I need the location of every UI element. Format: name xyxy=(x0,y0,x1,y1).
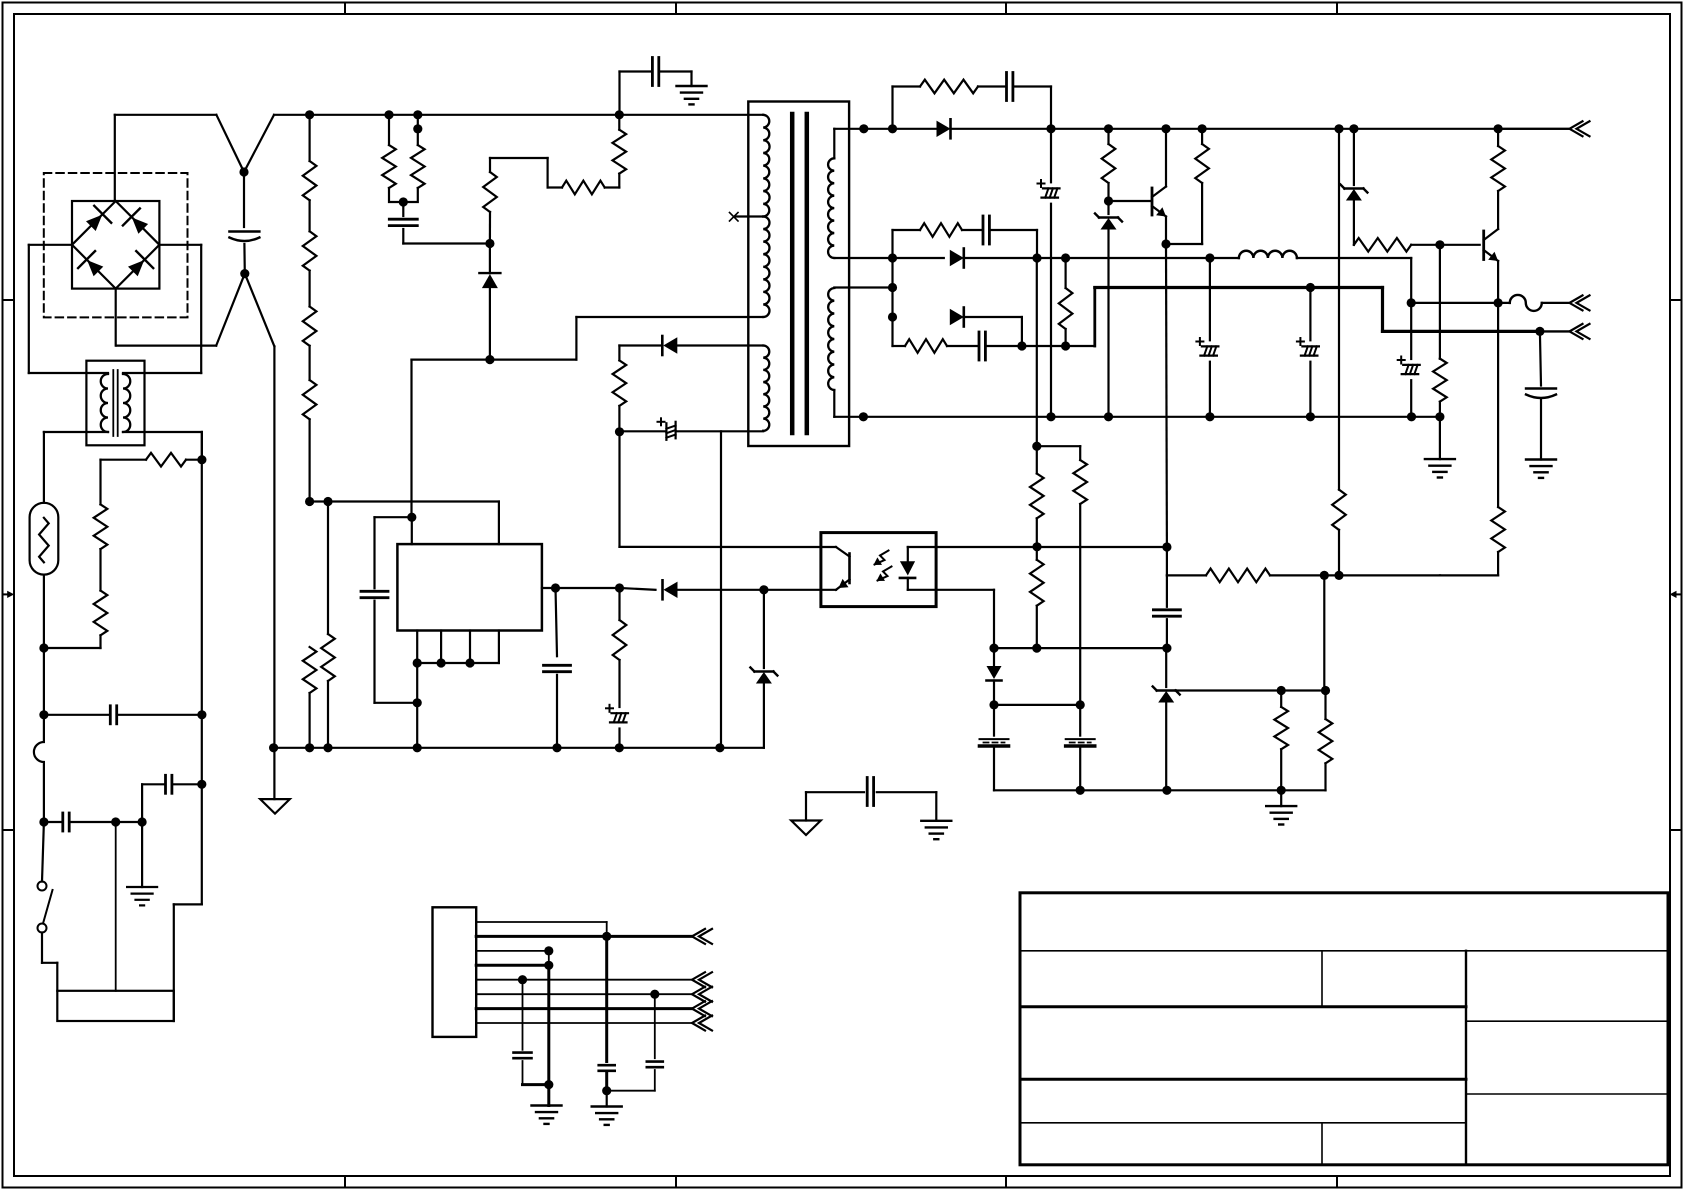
wire Q1 base xyxy=(1109,200,1153,202)
wire IC right pin xyxy=(542,587,556,589)
choke L1 left winding xyxy=(101,374,108,432)
switch SW1 xyxy=(38,822,53,963)
node opto emitter junction xyxy=(759,585,768,594)
node divider tap xyxy=(1104,124,1113,133)
wire secondary rail 2 xyxy=(834,257,944,259)
node R4 bottom xyxy=(305,497,314,506)
transformer T1 primary tap xyxy=(736,215,763,217)
wire row 303 out xyxy=(1542,302,1570,304)
node rail R4 tap xyxy=(305,110,314,119)
node fb mid a xyxy=(1334,571,1343,580)
capacitor C15 electrolytic xyxy=(1297,288,1319,417)
node IC ground mid xyxy=(413,698,422,707)
node C17 rail xyxy=(1162,644,1171,653)
wire choke bottom left lead xyxy=(44,432,108,503)
ground G2 xyxy=(677,86,707,104)
connector chevron p7 xyxy=(692,1001,712,1016)
resistor R3 xyxy=(44,549,107,648)
resistor R5 xyxy=(382,115,403,202)
resistor R30 xyxy=(1433,245,1447,417)
diode D7 xyxy=(987,648,1002,705)
wire top rail to transformer xyxy=(274,114,763,116)
node R12 rail xyxy=(305,743,314,752)
node inductor tap xyxy=(1205,253,1214,262)
node zener ZD2 tap xyxy=(1349,124,1358,133)
resistor R26 xyxy=(1319,691,1333,791)
connector J1 pin 1 wire xyxy=(476,922,607,936)
wire crossover X bottom xyxy=(116,274,274,347)
node C15 rail xyxy=(1306,412,1315,421)
node D1 cathode xyxy=(1046,124,1055,133)
resistor R28 xyxy=(1030,547,1044,648)
title block column divider upper xyxy=(1321,951,1323,1007)
transformer T1 secondary winding B xyxy=(828,288,834,390)
transformer T1 primary winding 3 xyxy=(763,346,769,431)
earth ground G1 xyxy=(127,822,157,905)
node opto collector join xyxy=(1162,542,1171,551)
node R6 tap xyxy=(413,110,422,133)
wire opto cathode out xyxy=(936,590,994,648)
optocoupler U2 box xyxy=(821,533,936,607)
resistor R22 sense xyxy=(1440,303,1505,576)
choke L1 core lines xyxy=(113,370,117,436)
zener ZD4 xyxy=(750,590,777,748)
wire IC top feed xyxy=(310,502,499,545)
wire 12V rail step xyxy=(1383,288,1540,332)
wire IC pin top xyxy=(411,517,413,544)
optocoupler U2 LED xyxy=(900,547,936,590)
wire zener row xyxy=(1175,689,1325,691)
node row 303 left xyxy=(1407,298,1416,307)
transistor Q2 xyxy=(1484,229,1498,261)
node C16 rail xyxy=(1407,412,1416,421)
node gate drive xyxy=(485,239,494,248)
node 12V cap tap xyxy=(1306,283,1315,292)
node J1 pin6 xyxy=(650,990,659,999)
diode D6 xyxy=(620,580,821,599)
node opto out xyxy=(1032,542,1041,551)
resistor R4c xyxy=(303,307,317,381)
bridge rectifier BR1 dashed outline xyxy=(44,173,188,317)
wire mid chassis drop xyxy=(115,822,117,991)
wire output row3 xyxy=(1540,330,1570,332)
node R18 bottom xyxy=(1061,341,1070,350)
wire bridge left vertex to choke xyxy=(29,245,108,373)
diode D1 xyxy=(937,119,951,138)
wire C2 to right rail xyxy=(117,714,202,716)
node J1 pin2 xyxy=(602,932,611,941)
bridge diode lower-left xyxy=(78,251,103,276)
snubber R17 xyxy=(893,223,983,258)
wire Q2 collector xyxy=(1497,191,1499,229)
wire opto drive xyxy=(1166,547,1168,607)
bridge diode lower-right xyxy=(128,251,153,276)
capacitor C24 xyxy=(607,994,663,1090)
node C4 right xyxy=(197,780,206,789)
wire secondary tap 3 xyxy=(834,286,892,288)
wire cap row sec xyxy=(994,704,1080,706)
node C12 rail xyxy=(1046,412,1055,421)
transformer T1 primary winding 1 xyxy=(763,115,769,217)
wire rail1 output xyxy=(1498,128,1569,130)
capacitor C10 electrolytic xyxy=(606,705,628,748)
wire row3 out xyxy=(1022,288,1095,347)
diode D2 xyxy=(950,249,964,268)
wire secondary ground rail xyxy=(863,416,1440,418)
snubber R14 xyxy=(893,80,1007,129)
node IC fb 1 xyxy=(551,583,560,592)
choke L1 right winding xyxy=(123,374,130,432)
wire secondary rail 1 xyxy=(864,128,937,130)
wire opto collector out xyxy=(936,546,1167,548)
resistor R6 xyxy=(403,115,424,202)
connector J1 pin 6 wire xyxy=(476,993,692,995)
resistor R15 xyxy=(1102,129,1116,201)
connector chevron p6 xyxy=(692,987,712,1002)
node D3 junction xyxy=(1017,341,1026,350)
connector J1 pin 7 wire xyxy=(476,1007,692,1010)
wire rail 2 to corner xyxy=(1297,258,1411,303)
node line cap row left xyxy=(39,817,48,826)
wire Q2 emitter xyxy=(1497,261,1499,303)
connector J1 pin 2 wire xyxy=(476,935,692,938)
node R1 right xyxy=(197,455,206,464)
wire crossover V top xyxy=(216,115,274,172)
capacitor C25 electrolytic xyxy=(1196,258,1218,417)
resistor R23 xyxy=(1332,490,1346,576)
connector J1 pin 8 wire xyxy=(476,1022,692,1024)
resistor R9 rail dropper xyxy=(613,115,627,174)
wire D2 D3 link xyxy=(891,258,893,317)
node zener row a xyxy=(1277,686,1286,695)
capacitor C12 electrolytic xyxy=(1038,129,1060,417)
node cap row mid xyxy=(111,817,120,826)
wire aux cap return xyxy=(720,431,722,748)
capacitor C6 top xyxy=(620,72,651,115)
wire R29 link xyxy=(1037,446,1080,460)
node EMI rail left xyxy=(39,710,48,719)
wire IC ground xyxy=(416,663,418,748)
wire aux to opto xyxy=(620,432,821,547)
wire Q1 collector xyxy=(1165,129,1167,187)
capacitor C22 xyxy=(514,980,549,1085)
resistor R27 xyxy=(1030,258,1044,547)
ferrite bead FB1 xyxy=(1510,295,1542,311)
resistor R4a xyxy=(303,115,317,232)
node cap row sec b xyxy=(1076,700,1085,709)
wire Q1 emitter row xyxy=(1166,183,1202,244)
node R16 rail xyxy=(1198,124,1207,133)
resistor R10 aux xyxy=(613,346,627,432)
wire aux row xyxy=(412,317,764,360)
wire aux row left drop xyxy=(410,360,412,518)
wire C5 to gate node xyxy=(403,242,490,244)
optocoupler U2 light arrows xyxy=(874,551,892,582)
node rail2 R18 tap xyxy=(1061,253,1070,262)
node aux xyxy=(615,427,624,436)
node D3 anode xyxy=(888,312,897,321)
node IC feed tap xyxy=(323,497,332,506)
node J1 gnd a xyxy=(544,1080,553,1089)
capacitor C9 xyxy=(544,588,571,748)
fusible resistor F1 lamp outline xyxy=(30,503,59,575)
wire F1 to node xyxy=(43,575,45,648)
connector chevron p5 xyxy=(692,972,712,987)
bridge diode upper-right xyxy=(123,208,148,233)
diode D4 xyxy=(619,336,763,355)
wire fb row xyxy=(556,587,620,589)
wire Q2 base xyxy=(1440,244,1480,246)
wire fb divider top xyxy=(1338,129,1340,490)
node fb node a xyxy=(1334,124,1343,133)
inductor L2 xyxy=(1239,251,1297,258)
snubber C14 xyxy=(979,332,1022,360)
capacitor C4 xyxy=(142,775,202,822)
wire fb tap down xyxy=(1323,575,1325,690)
snubber C13 xyxy=(983,216,1037,258)
node D5 anode xyxy=(485,355,494,364)
resistor R4d xyxy=(303,380,317,502)
chassis outline box xyxy=(57,991,174,1021)
node F1 bottom xyxy=(39,643,48,652)
title block right column divider xyxy=(1465,951,1467,1165)
node fb mid b xyxy=(1320,571,1329,580)
capacitor C3 xyxy=(44,813,116,831)
zener ZD1 xyxy=(1095,201,1122,417)
bridge rectifier BR1 square xyxy=(72,201,159,289)
ground G3 xyxy=(1266,790,1296,824)
node R27 mid xyxy=(1032,442,1041,451)
wire EMI bottom rail xyxy=(44,714,110,716)
title block column divider lower xyxy=(1321,1123,1323,1165)
optocoupler U2 phototransistor xyxy=(821,547,850,590)
node secondary top tap xyxy=(859,124,868,133)
connector J1 pin 3 wire xyxy=(476,951,549,965)
node fb lower a xyxy=(989,644,998,653)
capacitor C17 xyxy=(1153,610,1180,648)
diode D5 xyxy=(479,244,500,360)
node fb zener row b xyxy=(1321,686,1330,695)
node fb lower b xyxy=(1032,644,1041,653)
node Q1 collector xyxy=(1161,124,1170,133)
node D1 anode xyxy=(888,124,897,133)
node IC fb 2 xyxy=(615,583,624,592)
node C25 rail xyxy=(1205,412,1214,421)
node J1 pin5 xyxy=(518,975,527,984)
resistor R20 xyxy=(1354,238,1440,252)
title block right column row a xyxy=(1466,1020,1668,1022)
node cap row right xyxy=(138,817,147,826)
transformer T1 box xyxy=(748,102,849,447)
title block row line 4 xyxy=(1020,1122,1466,1124)
capacitor C5 xyxy=(389,202,417,244)
capacitor C6 xyxy=(652,58,691,87)
wire bridge bottom lead xyxy=(115,289,117,346)
resistor R4b xyxy=(303,231,317,306)
node R21 rail xyxy=(1494,124,1503,133)
bridge rectifier BR1 diamond xyxy=(72,201,159,289)
node C10 rail xyxy=(615,743,624,752)
snubber R19 xyxy=(893,317,979,353)
connector J1 pin 4 wire xyxy=(476,965,549,1084)
primary ground symbol xyxy=(260,748,290,814)
node EMI rail right xyxy=(197,710,206,719)
wire cap row xyxy=(116,821,142,823)
resistor R7 gate xyxy=(483,158,562,244)
node output cap tap xyxy=(1535,327,1544,336)
node IC pin bus xyxy=(413,658,475,667)
title block row line 3 xyxy=(1020,1078,1466,1081)
wire secondary A top tap xyxy=(834,129,864,159)
capacitor C2 X-cap xyxy=(110,706,116,724)
node Q2 emitter out xyxy=(1494,298,1503,307)
resistor R13 xyxy=(321,502,335,748)
resistor R21 xyxy=(1491,129,1505,191)
wire fb row mid xyxy=(1167,574,1206,576)
capacitor C18 electrolytic xyxy=(980,705,1009,790)
resistor R1 horizontal xyxy=(101,453,202,467)
output connector chevron 2 xyxy=(1570,295,1590,310)
capacitor C1 X-cap xyxy=(229,172,259,274)
resistor R12 lower dropper xyxy=(303,647,317,748)
snubber C11 xyxy=(1007,73,1052,129)
capacitor C20 output xyxy=(1526,331,1556,459)
zener ZD3 xyxy=(1153,648,1180,790)
bridge diode upper-left xyxy=(86,206,111,231)
zener ZD2 xyxy=(1340,129,1367,245)
fusible resistor F1 element xyxy=(39,518,49,563)
resistor R25 xyxy=(1274,691,1288,791)
wire D3 out xyxy=(964,317,1022,346)
wire Q1 emitter down xyxy=(1165,244,1168,547)
resistor R16 xyxy=(1195,129,1209,183)
wire Q1 emitter xyxy=(1165,217,1167,245)
node R5 R6 junction xyxy=(399,197,408,206)
capacitor C21 Y-cap xyxy=(806,778,936,821)
node Q1 base feed xyxy=(1104,196,1113,205)
resistor R11 xyxy=(613,588,627,707)
capacitor C23 xyxy=(599,936,615,1090)
wire switch to box xyxy=(42,963,57,991)
resistor R8 gate horizontal xyxy=(562,174,619,195)
frame centering arrow left xyxy=(3,591,15,598)
node gnd2 b xyxy=(1162,786,1171,795)
node row3 tap xyxy=(888,283,897,292)
diode D3 xyxy=(950,308,964,327)
wire primary ground rail xyxy=(274,346,764,747)
connector J1 box xyxy=(433,907,477,1037)
node C1 bottom xyxy=(240,269,249,278)
node Q2 base junction xyxy=(1435,240,1444,249)
wire choke bottom right lead xyxy=(123,432,202,460)
wire secondary B bottom tap xyxy=(834,390,863,417)
node secondary bottom tap xyxy=(859,412,868,421)
output connector chevron 3 xyxy=(1570,324,1590,339)
wire flex lead xyxy=(34,715,44,822)
frame centering arrow right xyxy=(1670,591,1682,598)
node primary ground rail xyxy=(269,743,278,752)
wire rail 2 cont xyxy=(964,257,1239,259)
capacitor C19 electrolytic xyxy=(1066,705,1095,790)
common-mode choke L1 box xyxy=(86,361,144,446)
ground G6 xyxy=(921,821,951,839)
transformer T1 primary winding 2 xyxy=(763,217,769,318)
ground G4 xyxy=(1425,417,1455,478)
node gnd2 a xyxy=(1076,786,1085,795)
connector J1 pin 5 wire xyxy=(476,979,692,981)
node J1 gnd b xyxy=(602,1086,611,1095)
wire chassis right riser xyxy=(174,432,202,1021)
wire secondary ground rail 2 xyxy=(994,789,1326,791)
ground G5 xyxy=(1526,460,1556,478)
node aux return xyxy=(715,743,724,752)
wire row 303 xyxy=(1411,302,1510,304)
node R9 rail tap xyxy=(615,110,624,119)
capacitor C16 electrolytic xyxy=(1398,303,1420,417)
node top crossover xyxy=(239,167,248,176)
wire 12V rail bold xyxy=(1095,286,1383,289)
node R30 gnd rail xyxy=(1435,412,1444,421)
resistor R29 xyxy=(1073,460,1087,705)
wire fb lower rail xyxy=(994,647,1167,649)
capacitor C7 aux electrolytic xyxy=(620,418,764,440)
resistor R24 xyxy=(1206,569,1440,583)
ground G8 xyxy=(592,1091,622,1125)
IC U1 box xyxy=(397,544,542,630)
ground G7 xyxy=(532,1085,562,1124)
wire top rail left xyxy=(115,115,217,201)
node J1 pin3 xyxy=(544,946,553,955)
title block outline xyxy=(1020,893,1668,1165)
transformer T1 core xyxy=(792,114,807,433)
transistor Q1 xyxy=(1152,187,1166,217)
resistor R2 xyxy=(94,460,108,549)
output connector chevron 1 xyxy=(1570,121,1590,136)
IC U1 bottom pins xyxy=(417,631,499,664)
transformer T1 secondary winding A xyxy=(828,158,834,258)
node R5 tap xyxy=(384,110,393,119)
wire rail 1 cont xyxy=(951,128,1570,130)
wire bridge right vertex to choke xyxy=(123,245,201,373)
primary ground symbol 2 xyxy=(791,821,821,836)
node gnd2 c xyxy=(1277,786,1286,795)
title block row line 1 xyxy=(1020,950,1668,952)
node D2 cathode xyxy=(1032,253,1041,262)
transformer tap x-mark xyxy=(730,213,739,222)
node ZD1 rail xyxy=(1104,412,1113,421)
node IC ground rail xyxy=(413,743,422,752)
capacitor C8 xyxy=(361,517,417,703)
node J1 pin4 xyxy=(544,961,553,970)
node R13 rail xyxy=(323,743,332,752)
node Q1 emitter xyxy=(1161,239,1170,248)
wire F1 node down xyxy=(43,648,45,715)
resistor R18 xyxy=(1059,258,1073,346)
node C9 rail xyxy=(552,743,561,752)
node D2 anode xyxy=(888,253,897,262)
title block right column row b xyxy=(1466,1093,1668,1095)
connector chevron p2 xyxy=(692,929,712,944)
node D7 out xyxy=(989,700,998,709)
title block row line 2 xyxy=(1020,1005,1466,1008)
node IC pin top-left xyxy=(407,513,416,522)
connector chevron p8 xyxy=(692,1016,712,1031)
